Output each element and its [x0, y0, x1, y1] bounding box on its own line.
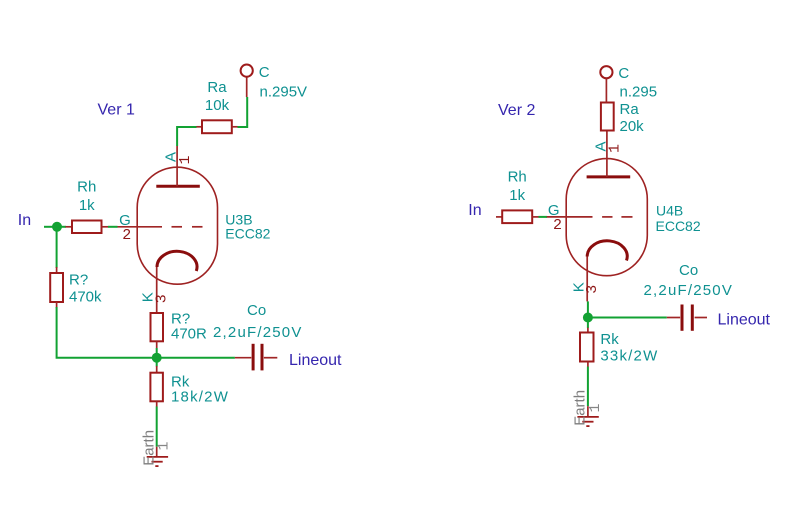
pin K (3) lead: [139, 267, 170, 313]
svg-text:2,2uF/250V: 2,2uF/250V: [213, 324, 303, 341]
wire Ra to connector C: [238, 97, 248, 127]
cathode arc: [157, 251, 197, 271]
svg-text:C: C: [618, 65, 629, 82]
svg-text:Ra: Ra: [620, 101, 640, 118]
resistor Rk 18k/2W: [150, 366, 229, 407]
svg-text:1: 1: [587, 403, 604, 412]
connector C n.295: [600, 65, 657, 103]
svg-text:1k: 1k: [79, 197, 95, 214]
svg-text:ECC82: ECC82: [656, 218, 701, 234]
svg-text:470k: 470k: [69, 289, 102, 306]
wire junction to Co: [588, 317, 667, 319]
svg-text:1k: 1k: [509, 187, 525, 204]
capacitor Co 2,2uF/250V: [644, 262, 734, 331]
pin A (1) lead: [593, 131, 624, 177]
node junction cathode (right): [583, 313, 593, 323]
power symbol Earth (left): [140, 430, 172, 466]
cathode arc: [587, 241, 627, 261]
svg-text:ECC82: ECC82: [225, 226, 270, 242]
node junction at In: [52, 222, 62, 232]
pin G (2) with grid dashed line: [118, 212, 203, 244]
svg-text:Rh: Rh: [77, 179, 96, 196]
svg-text:18k/2W: 18k/2W: [171, 388, 229, 405]
wire junction down to Rk: [587, 318, 589, 329]
resistor R? 470k: [50, 267, 102, 308]
tube U3B ECC82 body: [137, 167, 270, 284]
pin G (2) with grid dashed line: [547, 202, 633, 234]
svg-text:n.295V: n.295V: [260, 84, 308, 101]
svg-text:U4B: U4B: [656, 203, 683, 219]
wire junction down to Rk: [156, 358, 158, 367]
svg-text:Earth: Earth: [571, 390, 588, 426]
svg-text:2: 2: [553, 217, 562, 234]
power symbol Earth (right): [571, 390, 604, 426]
plate (anode) bar: [156, 185, 200, 188]
svg-text:470R: 470R: [171, 326, 207, 343]
resistor R? 470R: [151, 311, 208, 349]
wire 470R to junction: [156, 348, 158, 358]
svg-text:Co: Co: [247, 302, 266, 319]
svg-text:Ver 2: Ver 2: [498, 102, 535, 119]
wire cathode to junction: [587, 301, 589, 317]
plate (anode) bar: [587, 175, 631, 178]
svg-text:Ra: Ra: [207, 79, 227, 96]
svg-text:3: 3: [584, 285, 601, 294]
wire plate to Ra: [177, 127, 196, 146]
svg-text:10k: 10k: [205, 97, 230, 114]
svg-text:Rh: Rh: [508, 169, 527, 186]
tube U4B ECC82 body: [566, 159, 701, 276]
pin A (1) lead: [163, 146, 194, 186]
svg-text:Rk: Rk: [600, 331, 619, 348]
wire In to junction: [44, 226, 57, 228]
connector C n.295V: [241, 64, 307, 100]
resistor Ra 10k: [196, 79, 237, 133]
svg-text:20k: 20k: [620, 118, 645, 135]
svg-text:n.295: n.295: [620, 84, 658, 101]
svg-text:2,2uF/250V: 2,2uF/250V: [644, 282, 734, 299]
wire Rk to earth: [587, 367, 589, 407]
wire Rk to earth: [156, 407, 158, 447]
svg-text:2: 2: [122, 227, 131, 244]
resistor Rh 1k: [496, 169, 539, 224]
svg-text:In: In: [468, 202, 481, 219]
pin K (3) lead: [570, 257, 601, 302]
svg-text:1: 1: [607, 144, 624, 153]
wire Rh to pin G: [108, 226, 118, 228]
svg-text:Lineout: Lineout: [718, 312, 771, 329]
wire Rh to pin G: [539, 216, 548, 218]
svg-text:3: 3: [153, 294, 170, 303]
resistor Rh 1k: [66, 179, 109, 234]
resistor Rk 33k/2W: [580, 328, 658, 367]
svg-text:Lineout: Lineout: [289, 352, 342, 369]
wire junction to Rh: [57, 226, 66, 228]
wire junction down to R? 470k: [56, 227, 58, 268]
wire 470k down and right to bus: [57, 307, 235, 358]
capacitor Co 2,2uF/250V: [213, 302, 303, 370]
svg-text:Co: Co: [679, 262, 698, 279]
resistor Ra 20k: [601, 101, 644, 135]
svg-text:1: 1: [177, 155, 194, 164]
svg-text:R?: R?: [69, 272, 88, 289]
svg-text:1: 1: [156, 441, 173, 450]
svg-text:Ver 1: Ver 1: [98, 102, 135, 119]
svg-text:33k/2W: 33k/2W: [600, 348, 658, 365]
svg-text:C: C: [259, 64, 270, 81]
node junction cathode bus: [152, 353, 162, 363]
svg-text:In: In: [18, 212, 31, 229]
